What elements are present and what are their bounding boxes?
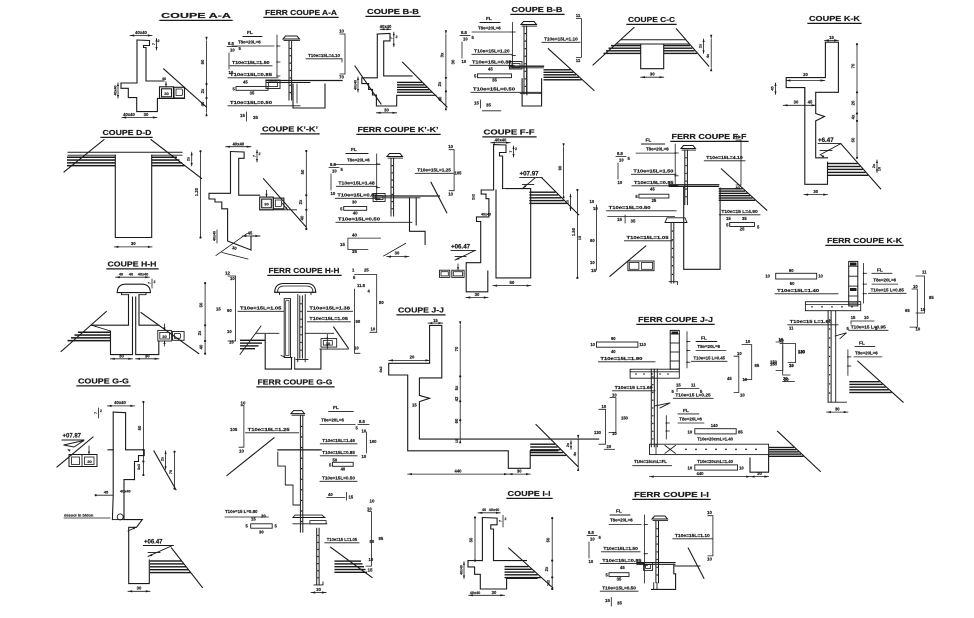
COUPE C-C right stair hatch	[664, 45, 690, 46]
svg-text:T10e=15L=1.46: T10e=15L=1.46	[322, 438, 355, 444]
FERR J-J stair hatch	[769, 447, 795, 448]
svg-text:2x: 2x	[298, 199, 303, 204]
svg-text:T8e=20L=6: T8e=20L=6	[610, 518, 633, 523]
svg-text:T10e=15L=1.40: T10e=15L=1.40	[777, 288, 819, 294]
svg-text:10: 10	[590, 199, 595, 204]
COUPE K-K section outline	[816, 42, 839, 158]
FERR J-J ladder bracket	[686, 332, 688, 368]
svg-text:15: 15	[605, 598, 610, 603]
FERR B-B vertical rebar	[521, 22, 537, 25]
FERR F-F lower rebar verticals	[670, 223, 672, 284]
svg-text:5: 5	[329, 462, 332, 467]
svg-text:T10e=15L=4.10: T10e=15L=4.10	[706, 155, 743, 161]
svg-text:10: 10	[332, 169, 337, 174]
FERR J-J bottom step	[750, 455, 769, 473]
svg-text:2: 2	[259, 152, 261, 156]
svg-text:70: 70	[454, 346, 459, 351]
svg-text:10: 10	[618, 180, 623, 185]
COUPE E-E left stair hatch	[78, 332, 111, 334]
svg-text:5: 5	[275, 524, 278, 529]
svg-text:40x40: 40x40	[114, 86, 118, 96]
svg-text:15: 15	[474, 101, 479, 106]
svg-text:30: 30	[87, 459, 92, 464]
svg-text:10: 10	[743, 377, 748, 382]
svg-text:30: 30	[131, 241, 136, 246]
COUPE B-B stair diagonal	[403, 62, 447, 107]
svg-text:T10e=15L=1.50: T10e=15L=1.50	[232, 60, 270, 66]
FERR H-H center stem	[297, 295, 299, 362]
svg-text:COUPE K-K: COUPE K-K	[809, 14, 861, 23]
COUPE F-F stair diagonal	[542, 178, 579, 215]
svg-text:2x: 2x	[565, 199, 569, 204]
FERR J-J top bar 60	[597, 342, 638, 347]
COUPE F-F beam boxes	[440, 270, 450, 277]
svg-text:30: 30	[384, 107, 389, 112]
svg-text:40x40: 40x40	[481, 213, 491, 217]
svg-text:2: 2	[100, 409, 102, 413]
svg-text:40x40: 40x40	[213, 231, 217, 241]
svg-text:30: 30	[316, 587, 321, 592]
svg-text:10: 10	[369, 557, 374, 562]
svg-text:T10e=15 L=0.25: T10e=15 L=0.25	[675, 393, 711, 399]
svg-text:2x: 2x	[187, 156, 191, 161]
COUPE E-E top dim	[116, 276, 150, 278]
FERR K'-K' slab rebar	[373, 195, 439, 197]
FERR K'-K' step outline	[410, 198, 426, 245]
svg-text:25: 25	[364, 268, 369, 273]
COUPE G-G right diagonal	[154, 451, 176, 490]
COUPE G-G bottom dim	[128, 590, 150, 592]
svg-text:30: 30	[259, 530, 264, 535]
COUPE E-E stem and legs	[92, 295, 159, 326]
COUPE F-F top dim	[491, 142, 510, 144]
svg-text:T10e=15L=0.85: T10e=15L=0.85	[337, 193, 377, 199]
COUPE F-F stair hatch	[529, 192, 555, 193]
svg-text:T10e=20cmL=1.40: T10e=20cmL=1.40	[697, 459, 734, 464]
COUPE G-G stair hatch	[150, 560, 182, 561]
svg-text:30: 30	[650, 72, 655, 77]
svg-text:40x40: 40x40	[354, 80, 358, 90]
svg-text:10: 10	[590, 260, 595, 265]
svg-text:10: 10	[462, 59, 467, 64]
COUPE A-A section outline	[137, 40, 164, 81]
svg-text:15: 15	[240, 113, 245, 118]
svg-text:35: 35	[742, 216, 747, 221]
svg-text:80: 80	[379, 300, 384, 305]
COUPE K'-K' top dim	[226, 146, 251, 148]
FERR G-G lower verticals	[316, 528, 318, 585]
svg-text:40: 40	[199, 344, 204, 349]
COUPE C-C right roof diagonal	[676, 29, 708, 66]
svg-text:4x: 4x	[851, 114, 856, 119]
COUPE E-E bottom dims	[111, 358, 133, 360]
svg-text:10: 10	[921, 307, 926, 312]
FERR J-J bent hook	[655, 403, 671, 408]
svg-text:T10e=15L=0.50: T10e=15L=0.50	[602, 585, 636, 591]
COUPE K-K left small dim	[775, 83, 777, 94]
svg-text:40: 40	[438, 96, 443, 101]
FERR A-A stirrup box at slab	[266, 80, 280, 89]
COUPE K'-K' beam box 1	[260, 197, 274, 210]
svg-text:11: 11	[576, 13, 581, 18]
svg-text:FERR COUPE K-K: FERR COUPE K-K	[827, 236, 903, 245]
svg-text:15: 15	[340, 242, 345, 247]
COUPE K-K dim 30-45	[783, 104, 815, 106]
FERR B-B lower outline	[522, 79, 542, 106]
svg-text:4: 4	[368, 289, 371, 294]
COUPE K'-K' beam box 2	[273, 198, 284, 209]
svg-text:10: 10	[737, 351, 742, 356]
COUPE K'-K' slab bottom line	[260, 209, 297, 211]
COUPE K-K right dimension line	[856, 44, 858, 158]
COUPE F-F main column	[496, 189, 531, 278]
COUPE D-D title diagonals	[151, 140, 202, 179]
svg-text:T10e=20cmL=1.40: T10e=20cmL=1.40	[697, 437, 734, 442]
svg-text:5: 5	[757, 225, 760, 230]
svg-text:T10e=15L=1.10: T10e=15L=1.10	[544, 37, 578, 43]
svg-text:45: 45	[808, 99, 813, 104]
svg-text:1.50: 1.50	[571, 227, 576, 236]
svg-text:40: 40	[341, 466, 346, 471]
svg-text:15: 15	[851, 315, 856, 320]
svg-text:10: 10	[448, 191, 453, 196]
FERR K'-K' bar 40	[344, 207, 367, 211]
svg-text:7: 7	[253, 155, 257, 157]
svg-text:30: 30	[119, 353, 124, 358]
svg-text:11: 11	[576, 58, 581, 63]
svg-text:FL: FL	[646, 138, 652, 144]
svg-text:1x2: 1x2	[547, 580, 551, 586]
svg-text:35: 35	[617, 577, 622, 582]
svg-text:10: 10	[916, 327, 921, 332]
FERR K'-K' bottom slant	[384, 243, 406, 256]
svg-text:65: 65	[905, 308, 910, 313]
COUPE A-A top dimension 40x40	[130, 35, 152, 37]
svg-text:40: 40	[353, 210, 358, 215]
svg-text:2x: 2x	[872, 163, 876, 168]
svg-text:10: 10	[362, 429, 367, 434]
COUPE D-D left stair hatch	[67, 157, 115, 159]
FERR H-H rebar hooks bottom	[286, 357, 292, 359]
FERR G-G stair hatch	[334, 560, 361, 561]
COUPE D-D beam outline	[115, 155, 151, 237]
COUPE A-A arrow into beam	[165, 82, 167, 87]
FERR I-I tick bracket	[644, 515, 646, 583]
FERR G-G diagonal	[331, 547, 372, 577]
COUPE K'-K' section outline	[231, 152, 260, 196]
svg-text:440: 440	[697, 471, 705, 476]
svg-text:130: 130	[594, 430, 602, 435]
FERR J-J L bracket	[665, 416, 667, 439]
svg-text:+07.87: +07.87	[63, 434, 82, 440]
svg-text:COUPE B-B: COUPE B-B	[367, 7, 420, 16]
svg-text:15: 15	[591, 268, 597, 273]
svg-text:T10e=15L=1.38: T10e=15L=1.38	[309, 306, 350, 312]
svg-text:15: 15	[412, 403, 417, 408]
svg-text:70: 70	[169, 470, 173, 474]
svg-text:15: 15	[455, 439, 459, 443]
svg-text:15: 15	[676, 383, 681, 388]
svg-text:30: 30	[264, 202, 269, 207]
COUPE F-F parapet outline	[494, 145, 506, 189]
svg-text:T8e=20L=6: T8e=20L=6	[873, 278, 896, 283]
svg-text:10: 10	[589, 559, 594, 564]
svg-text:7: 7	[152, 43, 156, 45]
FERR F-F right bracket	[736, 140, 741, 185]
svg-text:50: 50	[333, 458, 338, 463]
COUPE K'-K' slanted bottom dim	[222, 253, 248, 260]
svg-text:42: 42	[454, 396, 459, 401]
svg-text:10: 10	[230, 48, 235, 53]
svg-text:T8e=20L=6: T8e=20L=6	[347, 158, 370, 163]
svg-text:COUPE C-C: COUPE C-C	[628, 15, 676, 24]
svg-text:+07.97: +07.97	[520, 171, 540, 178]
FERR I-I vertical rebar	[652, 516, 668, 519]
svg-text:COUPE F-F: COUPE F-F	[484, 128, 535, 137]
COUPE B-B left rotated dim	[357, 77, 359, 92]
COUPE G-G upper outline	[113, 412, 144, 480]
svg-text:FERR COUPE A-A: FERR COUPE A-A	[265, 8, 338, 17]
FERR I-I stirrup box	[644, 563, 653, 571]
FERR B-B diagonal	[548, 49, 594, 91]
svg-text:5: 5	[599, 535, 602, 540]
svg-text:10: 10	[331, 191, 336, 196]
svg-text:11: 11	[691, 383, 696, 388]
FERR J-J diagonal	[778, 431, 821, 471]
svg-text:4x: 4x	[706, 53, 710, 58]
svg-text:10: 10	[227, 329, 232, 334]
svg-text:10: 10	[463, 37, 468, 42]
svg-text:COUPE K’-K’: COUPE K’-K’	[262, 125, 318, 134]
svg-text:FL: FL	[486, 16, 492, 22]
svg-text:40x40: 40x40	[138, 273, 149, 277]
COUPE G-G beam boxes	[69, 455, 97, 467]
FERR K-K slab band	[805, 302, 860, 311]
svg-text:15: 15	[216, 307, 221, 312]
COUPE C-C left roof diagonal	[593, 28, 634, 66]
svg-text:20: 20	[851, 100, 856, 105]
svg-text:10: 10	[612, 393, 617, 398]
svg-text:110: 110	[639, 342, 646, 347]
COUPE K'-K' left rotated dim	[216, 230, 218, 243]
svg-text:T10e=15L=1.20: T10e=15L=1.20	[474, 49, 510, 55]
svg-text:T10e=15L=1.25: T10e=15L=1.25	[248, 427, 290, 433]
svg-text:T10e=15 L=0.85: T10e=15 L=0.85	[871, 288, 905, 294]
COUPE D-D bottom dim 30	[114, 246, 152, 248]
COUPE K-K top dim 15	[825, 39, 839, 41]
FERR B-B tick bracket	[511, 23, 513, 67]
svg-text:COUPE I-I: COUPE I-I	[508, 489, 551, 498]
svg-text:10: 10	[230, 276, 235, 281]
svg-text:COUPE J-J: COUPE J-J	[398, 306, 444, 315]
COUPE B-B top dimension	[380, 28, 391, 30]
FERR K-K wall verticals	[827, 311, 829, 403]
svg-text:50: 50	[851, 137, 856, 142]
FERR G-G bar 40	[333, 462, 354, 466]
svg-text:15: 15	[829, 35, 834, 40]
svg-text:T10e=15L=0.85: T10e=15L=0.85	[472, 60, 512, 66]
svg-text:40: 40	[611, 349, 616, 354]
COUPE C-C right dims	[703, 39, 705, 53]
svg-text:T10e=15L=0.50: T10e=15L=0.50	[473, 87, 515, 93]
svg-text:5: 5	[239, 46, 242, 51]
FERR A-A lower outline	[293, 84, 325, 108]
svg-text:FERR COUPE H-H: FERR COUPE H-H	[269, 266, 340, 275]
svg-text:85: 85	[929, 295, 934, 300]
svg-text:8.8: 8.8	[588, 530, 594, 535]
svg-text:35: 35	[253, 115, 258, 120]
FERR H-H left slab and hatch	[256, 332, 279, 334]
svg-text:45: 45	[488, 67, 493, 72]
svg-text:7: 7	[509, 150, 513, 152]
svg-text:2x: 2x	[699, 43, 703, 48]
COUPE D-D right dims	[191, 152, 193, 166]
svg-text:T10e=15 L=1.60: T10e=15 L=1.60	[615, 385, 653, 391]
COUPE E-E right dimension	[204, 283, 206, 354]
svg-text:T10e=15L=1.50: T10e=15L=1.50	[633, 169, 673, 175]
svg-text:5: 5	[628, 156, 631, 161]
COUPE C-C left stair hatch	[611, 45, 641, 46]
COUPE I-I section outline	[482, 518, 526, 561]
COUPE I-I right dimension	[551, 518, 553, 589]
svg-text:105: 105	[230, 427, 238, 432]
COUPE D-D right stair hatch	[152, 157, 177, 159]
COUPE G-G right dim line	[142, 402, 144, 475]
svg-text:7: 7	[389, 37, 393, 39]
svg-text:7: 7	[148, 282, 152, 284]
svg-text:5: 5	[356, 426, 359, 431]
svg-text:dessol in bidon: dessol in bidon	[64, 513, 94, 518]
FERR F-F diagonal	[721, 169, 766, 210]
svg-text:FERR COUPE G-G: FERR COUPE G-G	[258, 378, 333, 387]
svg-text:40x40: 40x40	[470, 591, 481, 595]
svg-text:50: 50	[199, 302, 204, 307]
FERR F-F beam boxes	[628, 261, 654, 271]
svg-text:50: 50	[300, 169, 305, 174]
FERR B-B stirrup boxes	[510, 62, 523, 70]
svg-text:30: 30	[352, 200, 357, 205]
svg-text:5: 5	[340, 206, 343, 211]
svg-text:FL: FL	[877, 268, 883, 274]
svg-text:10: 10	[370, 499, 375, 504]
FERR H-H cap outline	[275, 284, 316, 293]
FERR I-I step outline	[652, 564, 676, 589]
COUPE A-A bottom dimension	[122, 117, 157, 119]
svg-text:5: 5	[474, 74, 477, 79]
svg-text:15: 15	[433, 318, 438, 323]
svg-text:30: 30	[450, 59, 455, 64]
svg-text:FERR COUPE K’-K’: FERR COUPE K’-K’	[358, 125, 439, 134]
COUPE A-A right dimension line	[206, 41, 208, 112]
svg-text:10: 10	[818, 274, 823, 279]
svg-text:2: 2	[505, 517, 507, 521]
svg-text:85: 85	[755, 363, 760, 368]
svg-text:10: 10	[878, 167, 882, 171]
COUPE K'-K' stair diagonal	[264, 179, 307, 228]
svg-text:T8e=20L=6: T8e=20L=6	[238, 40, 261, 45]
FERR F-F lower outline	[684, 187, 720, 270]
FERR I-I bar 35	[609, 573, 629, 577]
svg-text:15: 15	[726, 216, 731, 221]
svg-text:3x: 3x	[439, 52, 444, 57]
svg-text:20: 20	[410, 354, 415, 359]
svg-text:10: 10	[241, 401, 246, 406]
svg-text:T8e=20L=6: T8e=20L=6	[321, 418, 344, 423]
svg-text:30: 30	[492, 590, 497, 595]
FERR I-I slab line right	[675, 565, 700, 567]
svg-text:3x3: 3x3	[137, 464, 141, 470]
FERR H-H left rebar box	[284, 299, 290, 358]
svg-text:30: 30	[395, 251, 400, 256]
svg-text:5: 5	[232, 86, 235, 91]
svg-text:T8e=20L=6: T8e=20L=6	[855, 351, 878, 356]
svg-text:50: 50	[546, 537, 551, 542]
svg-text:10: 10	[362, 454, 367, 459]
svg-text:105: 105	[455, 171, 463, 176]
FERR A-A slab rebar lines	[266, 80, 342, 82]
svg-text:5: 5	[672, 389, 675, 394]
COUPE G-G landing arrow	[128, 527, 136, 531]
COUPE C-C beam section	[641, 44, 664, 69]
FERR K'-K' tick bracket	[376, 154, 378, 200]
svg-text:140: 140	[711, 423, 719, 428]
svg-text:12: 12	[225, 271, 230, 276]
FERR F-F bar 25 right	[730, 223, 755, 227]
FERR K-K diagonal	[858, 361, 903, 402]
svg-text:FERR COUPE I-I: FERR COUPE I-I	[634, 490, 709, 499]
svg-text:40x40: 40x40	[460, 565, 464, 575]
svg-text:T10e=15 L=0.95: T10e=15 L=0.95	[851, 325, 886, 331]
svg-text:10: 10	[688, 466, 693, 471]
svg-text:20: 20	[607, 444, 612, 449]
COUPE B-B bottom dimension	[376, 112, 396, 114]
svg-text:30: 30	[475, 292, 480, 297]
svg-text:40x40: 40x40	[120, 490, 131, 494]
svg-text:50: 50	[200, 59, 205, 64]
svg-text:1.20: 1.20	[194, 187, 199, 196]
svg-text:10: 10	[779, 337, 784, 342]
svg-text:T10e=15L=1.05: T10e=15L=1.05	[627, 235, 669, 241]
svg-text:FL: FL	[859, 341, 865, 347]
FERR J-J flange band	[630, 369, 679, 378]
svg-text:T10e=15 L=4.90: T10e=15 L=4.90	[721, 209, 758, 215]
svg-text:T10e=15L=0.50: T10e=15L=0.50	[322, 476, 355, 482]
svg-text:+06.47: +06.47	[451, 244, 471, 251]
svg-text:40: 40	[129, 273, 133, 277]
COUPE J-J top flange dim 15	[428, 322, 443, 324]
svg-text:40: 40	[352, 233, 357, 238]
svg-text:15: 15	[617, 217, 622, 222]
svg-text:T8e=20L=6: T8e=20L=6	[646, 147, 669, 152]
svg-text:T10e=15L=1.10: T10e=15L=1.10	[675, 533, 710, 539]
svg-text:60: 60	[590, 238, 595, 243]
svg-text:5x: 5x	[454, 385, 459, 390]
svg-text:30: 30	[517, 468, 522, 473]
svg-text:7: 7	[94, 412, 98, 414]
svg-text:50: 50	[137, 425, 142, 430]
COUPE G-G small dim 45	[96, 494, 113, 496]
FERR J-J bottom dims	[650, 476, 751, 478]
FERR F-F bar 25	[639, 194, 669, 198]
svg-text:5: 5	[635, 194, 638, 199]
FERR A-A right bracket 10-70	[340, 34, 345, 74]
svg-text:30: 30	[794, 99, 799, 104]
svg-text:25: 25	[652, 198, 657, 203]
COUPE A-A beam box 2	[174, 87, 185, 98]
svg-text:30: 30	[757, 471, 762, 476]
COUPE D-D slab lines	[68, 151, 182, 153]
svg-text:COUPE G-G: COUPE G-G	[78, 377, 129, 386]
